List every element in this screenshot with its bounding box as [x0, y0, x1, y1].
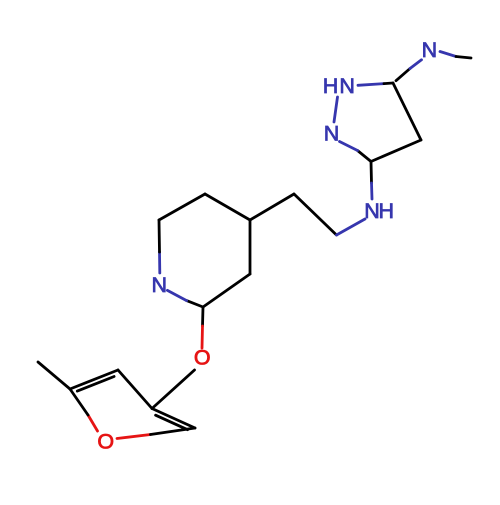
- furan bond O-C5: [70, 389, 98, 431]
- furan bond C3-C4: [118, 370, 152, 409]
- bond C5-Ntop: [396, 60, 422, 81]
- furan bond O-C2: [117, 428, 195, 439]
- svg-text:N: N: [324, 122, 340, 146]
- bond C1-O ester: [202, 307, 203, 348]
- svg-text:O: O: [194, 346, 211, 370]
- svg-text:N: N: [422, 38, 438, 62]
- pyrazole bond C5-C4: [393, 83, 421, 140]
- pyrazole bond N1-N2: [334, 97, 338, 122]
- furan bond C4=C5: [70, 370, 118, 391]
- svg-text:O: O: [97, 430, 114, 454]
- left ring bond V3-V4: [249, 220, 252, 274]
- pyrazole bond C3-N2: [340, 142, 372, 162]
- pyrazole bond N1-C5: [358, 83, 393, 85]
- svg-text:H: H: [323, 74, 339, 98]
- svg-text:H: H: [379, 199, 395, 223]
- chain bond V3-P: [250, 194, 294, 220]
- furan methyl bond C5-M: [38, 362, 70, 389]
- label HN pyrazole: [323, 74, 355, 98]
- svg-text:N: N: [364, 199, 380, 223]
- left ring bond C1-N: [167, 290, 203, 307]
- pyrazole bond C4-C3: [371, 140, 421, 162]
- bond NH-C3pz: [371, 162, 372, 200]
- furan bond C2=C3: [152, 409, 195, 430]
- left ring bond N-T: [158, 220, 162, 273]
- chain bond P-R: [294, 194, 337, 235]
- left ring bond T-V2: [159, 194, 205, 220]
- label NH amine: [364, 199, 394, 223]
- chain bond R-NH: [337, 219, 366, 235]
- svg-text:N: N: [339, 74, 355, 98]
- bond Ntop-methyl: [440, 52, 471, 59]
- left ring bond V4-C1: [203, 274, 250, 307]
- left ring bond V2-V3: [205, 194, 250, 220]
- svg-text:N: N: [152, 273, 168, 297]
- bond O ester to furan C3: [152, 370, 195, 409]
